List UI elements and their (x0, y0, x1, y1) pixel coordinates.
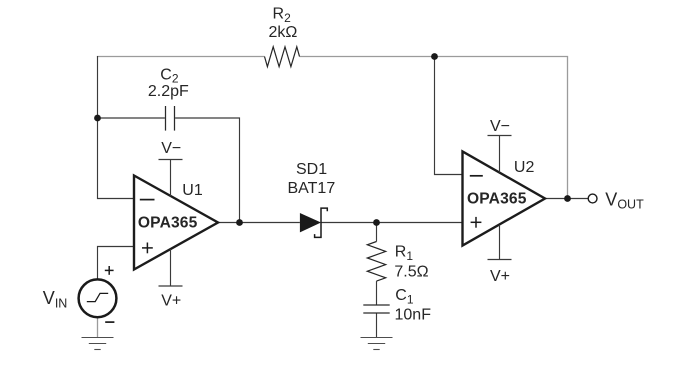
svg-text:BAT17: BAT17 (288, 180, 336, 197)
svg-text:U1: U1 (182, 182, 203, 199)
svg-text:7.5Ω: 7.5Ω (394, 264, 428, 281)
svg-text:SD1: SD1 (296, 161, 327, 178)
svg-text:V−: V− (161, 140, 181, 157)
svg-text:U2: U2 (514, 159, 535, 176)
svg-text:OPA365: OPA365 (467, 191, 527, 208)
svg-text:V−: V− (490, 118, 510, 135)
svg-text:2kΩ: 2kΩ (269, 24, 298, 41)
svg-text:V+: V+ (490, 268, 510, 285)
svg-text:V+: V+ (161, 293, 181, 310)
svg-text:OPA365: OPA365 (138, 215, 198, 232)
svg-text:2.2pF: 2.2pF (148, 83, 189, 100)
svg-text:10nF: 10nF (395, 306, 432, 323)
